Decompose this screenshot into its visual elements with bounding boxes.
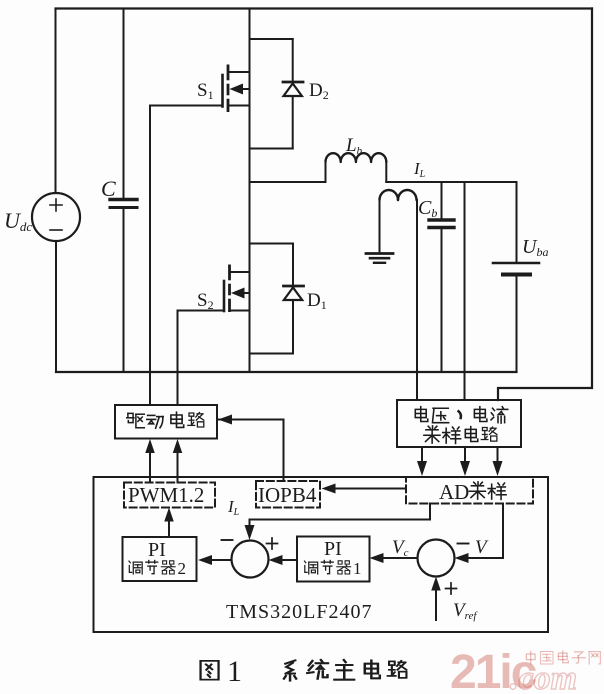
svg-text:1: 1 [227,655,242,688]
svg-text:PWM1.2: PWM1.2 [128,483,204,507]
svg-text:2: 2 [178,559,187,578]
svg-text:.com: .com [510,660,577,694]
svg-text:IOPB4: IOPB4 [258,483,317,507]
svg-text:PI: PI [324,538,342,560]
svg-text:TMS320LF2407: TMS320LF2407 [226,601,372,623]
svg-text:AD: AD [439,480,469,504]
svg-text:1: 1 [353,559,362,578]
svg-text:C: C [101,176,116,201]
svg-text:PI: PI [148,539,166,561]
